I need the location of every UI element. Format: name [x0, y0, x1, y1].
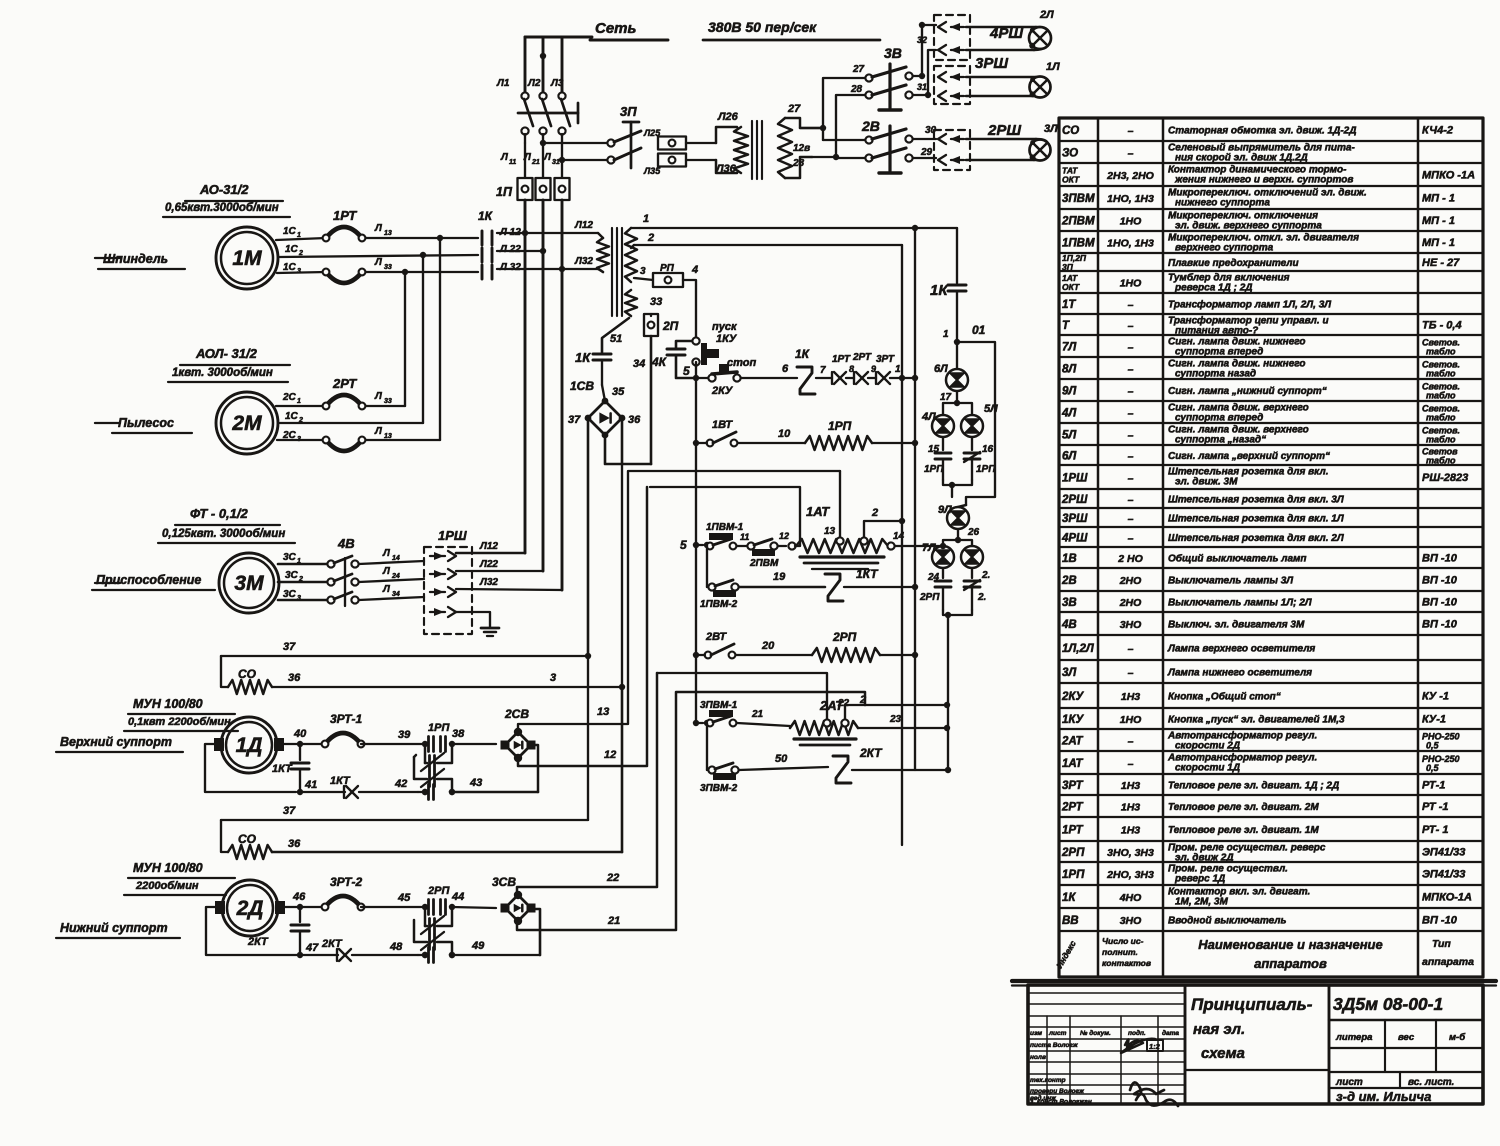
- svg-text:4В: 4В: [1061, 619, 1077, 631]
- svg-text:Лампа верхнего осветителя: Лампа верхнего осветителя: [1167, 644, 1315, 655]
- svg-text:33: 33: [384, 264, 392, 271]
- svg-text:Л 32: Л 32: [499, 262, 521, 273]
- wire 3СВ bottom: [531, 909, 540, 955]
- svg-text:Тепловое реле эл. двигат. 2М: Тепловое реле эл. двигат. 2М: [1168, 802, 1319, 813]
- svg-text:эл. движ 2Д: эл. движ 2Д: [1175, 853, 1234, 864]
- wire cap down: [943, 292, 960, 345]
- label Л31: [543, 152, 560, 166]
- svg-text:27: 27: [852, 64, 865, 75]
- svg-text:1К: 1К: [575, 350, 591, 365]
- svg-text:–: –: [1128, 451, 1134, 463]
- svg-text:7: 7: [820, 365, 826, 376]
- svg-text:1НО, 1Н3: 1НО, 1Н3: [1107, 238, 1154, 250]
- svg-text:Выключатель лампы 3Л: Выключатель лампы 3Л: [1168, 576, 1294, 587]
- wire 2М row1: [276, 405, 405, 407]
- svg-text:ния скорой эл. движ 1Д.2Д: ния скорой эл. движ 1Д.2Д: [1175, 153, 1308, 164]
- svg-text:2КУ: 2КУ: [711, 385, 734, 397]
- svg-text:з. конст Вологжан: з. конст Вологжан: [1030, 1099, 1092, 1106]
- contact 2КТ: [833, 746, 883, 783]
- svg-text:писта Вологж: писта Вологж: [1030, 1042, 1079, 1049]
- svg-text:49: 49: [471, 940, 485, 952]
- svg-text:1Л: 1Л: [1046, 61, 1060, 73]
- motor 1М: [95, 227, 278, 289]
- wire lamps2 join: [943, 610, 972, 770]
- wire node5: [683, 362, 699, 381]
- svg-text:–: –: [1128, 386, 1134, 398]
- wire net 1: [640, 213, 957, 231]
- label АОЛ-31/2: [168, 346, 290, 382]
- autotransformer 2АТ: [790, 698, 858, 745]
- svg-text:4В: 4В: [337, 536, 355, 551]
- svg-text:нижнего суппорта: нижнего суппорта: [1175, 198, 1270, 209]
- svg-text:вс. лист.: вс. лист.: [1408, 1077, 1454, 1088]
- svg-text:Л: Л: [374, 391, 383, 402]
- svg-text:31: 31: [917, 82, 927, 92]
- svg-text:Трансформатор ламп 1Л, 2Л, 3Л: Трансформатор ламп 1Л, 2Л, 3Л: [1168, 299, 1332, 311]
- label Л24: [382, 566, 400, 580]
- svg-text:3ПВМ-2: 3ПВМ-2: [700, 783, 738, 794]
- svg-text:28: 28: [850, 84, 863, 95]
- svg-text:–: –: [1128, 758, 1134, 770]
- wire phase Л2 down: [542, 200, 545, 571]
- wire row1 to transformer: [497, 220, 598, 236]
- switch 4В: [278, 536, 359, 606]
- svg-text:2РТ: 2РТ: [332, 376, 357, 391]
- wire net 01: [957, 323, 995, 505]
- svg-text:Л: Л: [382, 566, 391, 577]
- thermal 1РТ heater a: [323, 208, 366, 241]
- wire net 8: [846, 364, 854, 378]
- label Л3: [550, 78, 564, 89]
- tap 1АТ net13: [824, 471, 844, 545]
- svg-text:МПКО -1А: МПКО -1А: [1422, 170, 1475, 182]
- thermal 2РТ heater b: [323, 437, 366, 451]
- switch ВВ (main breaker): [518, 92, 578, 143]
- svg-text:1АТ: 1АТ: [1062, 758, 1084, 770]
- svg-text:46: 46: [292, 891, 306, 903]
- transformer Т primary: [597, 228, 640, 316]
- svg-text:–: –: [1128, 299, 1134, 311]
- svg-text:ОКТ: ОКТ: [1062, 282, 1080, 292]
- svg-text:ВП -10: ВП -10: [1422, 553, 1458, 565]
- svg-text:1ВТ: 1ВТ: [712, 419, 733, 431]
- wire 2Д bottom rail: [300, 938, 540, 961]
- svg-text:РТ -1: РТ -1: [1422, 801, 1448, 813]
- net label Сеть: [525, 20, 668, 40]
- svg-text:подп.: подп.: [1128, 1029, 1146, 1037]
- wire rail5 down: [693, 378, 699, 545]
- svg-text:Выключатель лампы 1Л; 2Л: Выключатель лампы 1Л; 2Л: [1168, 598, 1313, 609]
- svg-text:–: –: [1128, 667, 1134, 679]
- label 3С3: [283, 589, 301, 602]
- plug 2РШ: [934, 122, 1021, 170]
- svg-text:1К: 1К: [795, 347, 811, 361]
- contactor 1К main contacts: [478, 209, 494, 279]
- svg-text:Кнопка „пуск“ эл. двигателей 1: Кнопка „пуск“ эл. двигателей 1М,3: [1168, 715, 1345, 726]
- wire lamps1 join: [943, 480, 972, 497]
- svg-text:10: 10: [778, 428, 791, 440]
- svg-text:з-д им. Ильича: з-д им. Ильича: [1336, 1089, 1431, 1104]
- svg-text:1: 1: [297, 398, 301, 405]
- svg-text:6Л: 6Л: [934, 363, 948, 375]
- wire 3В to 4РШ pin2: [913, 50, 936, 98]
- svg-text:28: 28: [792, 158, 805, 169]
- svg-text:2ВТ: 2ВТ: [705, 631, 727, 643]
- wire rail 5 to 1ПВМ-2: [707, 545, 709, 587]
- svg-text:Наименование и назначение: Наименование и назначение: [1198, 937, 1382, 952]
- svg-text:Тепловое реле эл. двигат. 1Д ;: Тепловое реле эл. двигат. 1Д ; 2Д: [1168, 781, 1339, 792]
- svg-text:–: –: [1128, 342, 1134, 354]
- svg-text:2СВ: 2СВ: [504, 707, 529, 721]
- svg-text:34: 34: [633, 358, 645, 370]
- svg-text:2М: 2М: [231, 412, 262, 435]
- wire plug row2 to Л2: [456, 559, 543, 571]
- svg-text:3ПВМ-1: 3ПВМ-1: [700, 700, 738, 711]
- svg-text:Л: Л: [523, 152, 532, 163]
- svg-text:1Н3: 1Н3: [1121, 802, 1140, 814]
- capacitor 16/1РП: [964, 438, 996, 480]
- svg-text:–: –: [1128, 533, 1134, 545]
- svg-text:1РП: 1РП: [828, 419, 852, 433]
- lamp 3Л: [966, 123, 1058, 161]
- svg-text:Приспособление: Приспособление: [96, 573, 201, 587]
- wire to 3П top: [540, 140, 608, 146]
- wire net3 vertical: [619, 464, 651, 690]
- svg-text:4РШ: 4РШ: [1061, 533, 1088, 545]
- wire net 2: [631, 232, 902, 248]
- svg-text:33: 33: [384, 398, 392, 405]
- plug 3РШ: [934, 55, 1008, 104]
- wire phases to fuses: [525, 143, 562, 178]
- svg-text:Л 22: Л 22: [499, 244, 521, 255]
- svg-text:Л: Л: [374, 223, 383, 234]
- svg-text:17: 17: [940, 392, 952, 403]
- svg-text:4НО: 4НО: [1119, 892, 1142, 904]
- label Л34: [382, 584, 400, 598]
- label 33: [650, 296, 662, 308]
- label 32: [917, 35, 927, 45]
- svg-text:Лампа нижнего осветителя: Лампа нижнего осветителя: [1167, 668, 1312, 679]
- label Л13b: [374, 426, 392, 440]
- svg-text:26: 26: [967, 527, 980, 538]
- wire 1РП to bus: [872, 440, 918, 446]
- svg-text:13: 13: [597, 706, 609, 718]
- svg-text:3РТ: 3РТ: [876, 354, 895, 365]
- label МУН 100/80 b: [124, 861, 235, 895]
- svg-text:ЭП41/33: ЭП41/33: [1422, 847, 1465, 859]
- svg-text:Л22: Л22: [479, 559, 498, 570]
- wire to bus1: [890, 364, 918, 381]
- wire net 12a: [650, 487, 800, 550]
- lamp 9Л: [938, 504, 969, 529]
- svg-text:Выключ. эл. двигателя 3М: Выключ. эл. двигателя 3М: [1168, 620, 1305, 631]
- svg-text:ЗО: ЗО: [1062, 148, 1078, 160]
- svg-text:Сеть: Сеть: [595, 20, 637, 37]
- svg-text:Принципиаль-: Принципиаль-: [1191, 995, 1313, 1014]
- svg-text:0,125квт. 3000об/мин: 0,125квт. 3000об/мин: [162, 528, 285, 540]
- svg-text:литера: литера: [1335, 1032, 1372, 1043]
- thermal 3РТ-1: [322, 712, 365, 747]
- svg-text:СО: СО: [238, 667, 257, 681]
- label 3С2: [285, 570, 303, 583]
- button 1КУ пуск: [692, 321, 738, 366]
- svg-text:Сигн. лампа „верхний суппорт“: Сигн. лампа „верхний суппорт“: [1168, 451, 1330, 462]
- button 2КУ стоп: [696, 357, 756, 397]
- wire 1М row2: [280, 255, 478, 257]
- wire 1М row1: [276, 238, 478, 240]
- fuse Л25: [643, 128, 686, 150]
- svg-text:3РШ: 3РШ: [1062, 513, 1088, 525]
- label Л13: [374, 223, 392, 237]
- svg-text:4Л: 4Л: [1061, 408, 1077, 420]
- svg-text:Сигн. лампа „нижний суппорт“: Сигн. лампа „нижний суппорт“: [1168, 386, 1327, 397]
- tap 2АТ net2b: [841, 694, 866, 727]
- wire phase Л2 top: [540, 37, 546, 92]
- svg-text:3РТ-2: 3РТ-2: [330, 875, 363, 889]
- svg-text:2200об/мин: 2200об/мин: [135, 880, 199, 892]
- svg-text:3С: 3С: [283, 589, 297, 600]
- svg-text:1КУ: 1КУ: [716, 333, 738, 345]
- bus net1 vertical: [914, 228, 916, 770]
- svg-text:1Т: 1Т: [1062, 299, 1076, 311]
- wire net Л13 vertical: [437, 235, 443, 440]
- wire to 2СВ: [452, 743, 496, 745]
- wire 2М row2: [280, 422, 423, 424]
- svg-text:вес: вес: [1398, 1032, 1415, 1043]
- svg-text:РТ-1: РТ-1: [1422, 780, 1445, 792]
- svg-text:21: 21: [607, 915, 620, 927]
- svg-text:–: –: [1128, 148, 1134, 160]
- microswitch 1ПВМ-2: [700, 580, 739, 610]
- svg-text:7Л: 7Л: [922, 542, 936, 554]
- svg-text:Л2: Л2: [527, 78, 541, 89]
- wire net12 vertical: [518, 487, 647, 766]
- svg-text:полнит.: полнит.: [1102, 947, 1138, 957]
- node 5b: [680, 538, 710, 552]
- svg-text:1К: 1К: [1062, 892, 1076, 904]
- svg-text:ТБ - 0,4: ТБ - 0,4: [1422, 320, 1462, 332]
- label Л33: [374, 257, 392, 271]
- svg-text:3СВ: 3СВ: [492, 875, 516, 889]
- svg-text:тех.контр: тех.контр: [1030, 1077, 1066, 1084]
- svg-text:22: 22: [837, 698, 850, 709]
- svg-text:3Л: 3Л: [1062, 667, 1077, 679]
- svg-text:Л: Л: [500, 152, 509, 163]
- svg-text:–: –: [1128, 736, 1134, 748]
- svg-text:0,5: 0,5: [1426, 741, 1440, 751]
- svg-text:–: –: [1128, 473, 1134, 485]
- wire 37 down: [587, 418, 590, 656]
- svg-text:ЭП41/33: ЭП41/33: [1422, 869, 1465, 881]
- label Л11: [500, 152, 516, 166]
- component table grid and contents: [1012, 118, 1496, 986]
- wire phase Л3 down: [561, 200, 564, 590]
- svg-text:1ПВМ-1: 1ПВМ-1: [706, 522, 744, 533]
- svg-text:3Л: 3Л: [1044, 123, 1058, 135]
- wire 2Д left: [206, 907, 297, 955]
- svg-text:21: 21: [531, 159, 540, 166]
- svg-text:47: 47: [305, 942, 319, 954]
- label Пылесос: [112, 416, 192, 433]
- svg-text:1С: 1С: [283, 262, 297, 273]
- svg-text:1Д: 1Д: [236, 734, 263, 757]
- svg-text:МП - 1: МП - 1: [1422, 193, 1455, 205]
- thermal 2РТ heater a: [323, 376, 366, 409]
- svg-text:Тип: Тип: [1432, 938, 1451, 950]
- svg-text:м-б: м-б: [1449, 1032, 1466, 1043]
- svg-text:11: 11: [509, 159, 516, 166]
- svg-text:реверс 1Д: реверс 1Д: [1174, 874, 1225, 885]
- wire net 6: [741, 363, 797, 378]
- svg-text:1ПВМ-2: 1ПВМ-2: [700, 599, 738, 610]
- wire 36 row1: [272, 672, 622, 687]
- wire 37 vertical: [585, 653, 591, 820]
- svg-text:1РП: 1РП: [428, 722, 450, 734]
- svg-text:АО-31/2: АО-31/2: [199, 182, 249, 197]
- svg-text:Штепсельная розетка для вкл. 2: Штепсельная розетка для вкл. 2Л: [1168, 533, 1345, 544]
- svg-text:КЧ4-2: КЧ4-2: [1422, 125, 1453, 137]
- microswitch 3ПВМ-2: [700, 763, 739, 794]
- svg-text:дата: дата: [1162, 1029, 1179, 1037]
- svg-text:5Л: 5Л: [1062, 430, 1077, 442]
- label Л14: [382, 548, 400, 562]
- thermal 1РТ heater b: [323, 269, 366, 283]
- wire net 23: [858, 714, 950, 731]
- motor 3М: [95, 553, 279, 613]
- reversing contacts 1РП: [414, 722, 465, 800]
- svg-text:Число ис-: Число ис-: [1102, 936, 1144, 946]
- svg-text:12: 12: [779, 531, 789, 541]
- svg-text:7Л: 7Л: [1062, 342, 1077, 354]
- svg-text:1М: 1М: [232, 247, 262, 270]
- fuse 1П (three): [496, 178, 570, 200]
- lamp 1Л: [966, 61, 1060, 98]
- svg-text:2 НО: 2 НО: [1117, 553, 1143, 565]
- svg-text:верхнего суппорта: верхнего суппорта: [1175, 243, 1274, 254]
- svg-text:44: 44: [451, 891, 464, 903]
- relay coil 2РП: [812, 630, 880, 662]
- wire net Л23 vertical: [420, 252, 426, 423]
- svg-text:Верхний суппорт: Верхний суппорт: [60, 735, 172, 749]
- plug 4РШ: [934, 15, 1023, 60]
- label Нижний суппорт: [56, 921, 180, 938]
- svg-text:41: 41: [304, 779, 317, 791]
- svg-text:Статорная обмотка эл. движ. 1Д: Статорная обмотка эл. движ. 1Д-2Д: [1168, 125, 1356, 137]
- svg-text:38: 38: [452, 728, 465, 740]
- svg-text:6Л: 6Л: [1062, 451, 1077, 463]
- svg-text:19: 19: [773, 571, 786, 583]
- svg-text:Л1: Л1: [496, 78, 510, 89]
- label Л12 left: [499, 227, 521, 238]
- svg-text:Штепсельная розетка для вкл. 3: Штепсельная розетка для вкл. 3Л: [1168, 495, 1345, 506]
- svg-text:1КУ: 1КУ: [1062, 714, 1084, 726]
- svg-text:табло: табло: [1426, 435, 1456, 445]
- capacitor 1К control: [575, 350, 611, 385]
- label 1С2: [285, 244, 303, 257]
- lamp 5Л: [957, 403, 998, 437]
- svg-text:скорости 1Д: скорости 1Д: [1175, 763, 1240, 774]
- svg-text:1НО: 1НО: [1120, 216, 1142, 228]
- svg-text:48: 48: [389, 941, 403, 953]
- svg-text:суппорта вперед: суппорта вперед: [1175, 347, 1263, 358]
- svg-text:0,1квт 2200об/мин: 0,1квт 2200об/мин: [128, 716, 231, 728]
- svg-text:–: –: [1128, 513, 1134, 525]
- thermal 3РТ-2: [322, 875, 365, 910]
- wire 26 node: [955, 527, 980, 543]
- svg-text:табло: табло: [1426, 369, 1456, 379]
- svg-text:Л32: Л32: [574, 256, 593, 267]
- svg-text:3НО: 3НО: [1120, 619, 1142, 631]
- svg-text:Л25: Л25: [643, 128, 661, 138]
- svg-text:1В: 1В: [1062, 553, 1077, 565]
- svg-text:2КУ: 2КУ: [1061, 691, 1084, 703]
- wire phase Л1 top: [524, 37, 527, 92]
- switch 3П: [607, 104, 641, 168]
- microswitch 1ПВМ-1: [706, 522, 744, 549]
- label Л2: [527, 78, 541, 89]
- svg-text:СО: СО: [1062, 125, 1079, 137]
- svg-text:Л: Л: [374, 426, 383, 437]
- wire net 45: [361, 892, 424, 907]
- label 1С3: [283, 262, 301, 275]
- svg-text:Штепсельная розетка для вкл. 1: Штепсельная розетка для вкл. 1Л: [1168, 514, 1345, 525]
- svg-text:эл. движ. верхнего суппорта: эл. движ. верхнего суппорта: [1175, 221, 1322, 232]
- contact 1КТ: [825, 567, 879, 601]
- svg-text:27: 27: [787, 103, 801, 115]
- svg-text:3: 3: [640, 266, 646, 277]
- svg-text:Л: Л: [382, 584, 391, 595]
- switch 3В: [850, 45, 913, 110]
- label Шпиндель: [98, 252, 185, 269]
- svg-text:11: 11: [740, 532, 749, 542]
- svg-text:ВП -10: ВП -10: [1422, 915, 1458, 927]
- svg-text:2РП: 2РП: [1061, 847, 1085, 859]
- svg-text:аппарата: аппарата: [1422, 956, 1474, 968]
- label 31: [917, 82, 927, 92]
- svg-text:2С: 2С: [282, 392, 297, 403]
- toggle 1ВТ: [696, 419, 737, 446]
- svg-text:43: 43: [469, 777, 482, 789]
- capacitor 2КТ a: [247, 907, 319, 958]
- svg-text:Л26: Л26: [717, 111, 739, 123]
- svg-text:2П: 2П: [662, 319, 679, 333]
- label АО-31/2: [163, 182, 290, 217]
- svg-text:нолв: нолв: [1030, 1054, 1046, 1061]
- label Л21: [523, 152, 540, 166]
- svg-text:3ПВМ: 3ПВМ: [1062, 193, 1095, 205]
- svg-text:МП - 1: МП - 1: [1422, 237, 1455, 249]
- svg-text:3РТ: 3РТ: [1062, 780, 1084, 792]
- capacitor 2: [964, 569, 990, 610]
- bus net1 capacitor branch: [956, 228, 958, 283]
- svg-text:40: 40: [293, 728, 307, 740]
- svg-text:ВП -10: ВП -10: [1422, 597, 1458, 609]
- wire plug row3 to Л3: [456, 577, 562, 590]
- lamp 6Л: [934, 342, 968, 391]
- svg-text:0,5: 0,5: [1426, 763, 1440, 773]
- svg-text:14: 14: [392, 555, 400, 562]
- wire net 7: [816, 365, 832, 378]
- label Л22 left: [499, 244, 521, 255]
- svg-text:Л3: Л3: [550, 78, 564, 89]
- svg-text:№ докум.: № докум.: [1080, 1029, 1111, 1037]
- wire rail 3ПВМ-2: [707, 723, 709, 770]
- motor 1Д: [214, 717, 284, 773]
- svg-text:–: –: [1128, 364, 1134, 376]
- svg-text:суппорта вперед: суппорта вперед: [1175, 413, 1263, 424]
- svg-text:2РП: 2РП: [832, 630, 857, 644]
- microswitch 2ПВМ: [747, 539, 779, 569]
